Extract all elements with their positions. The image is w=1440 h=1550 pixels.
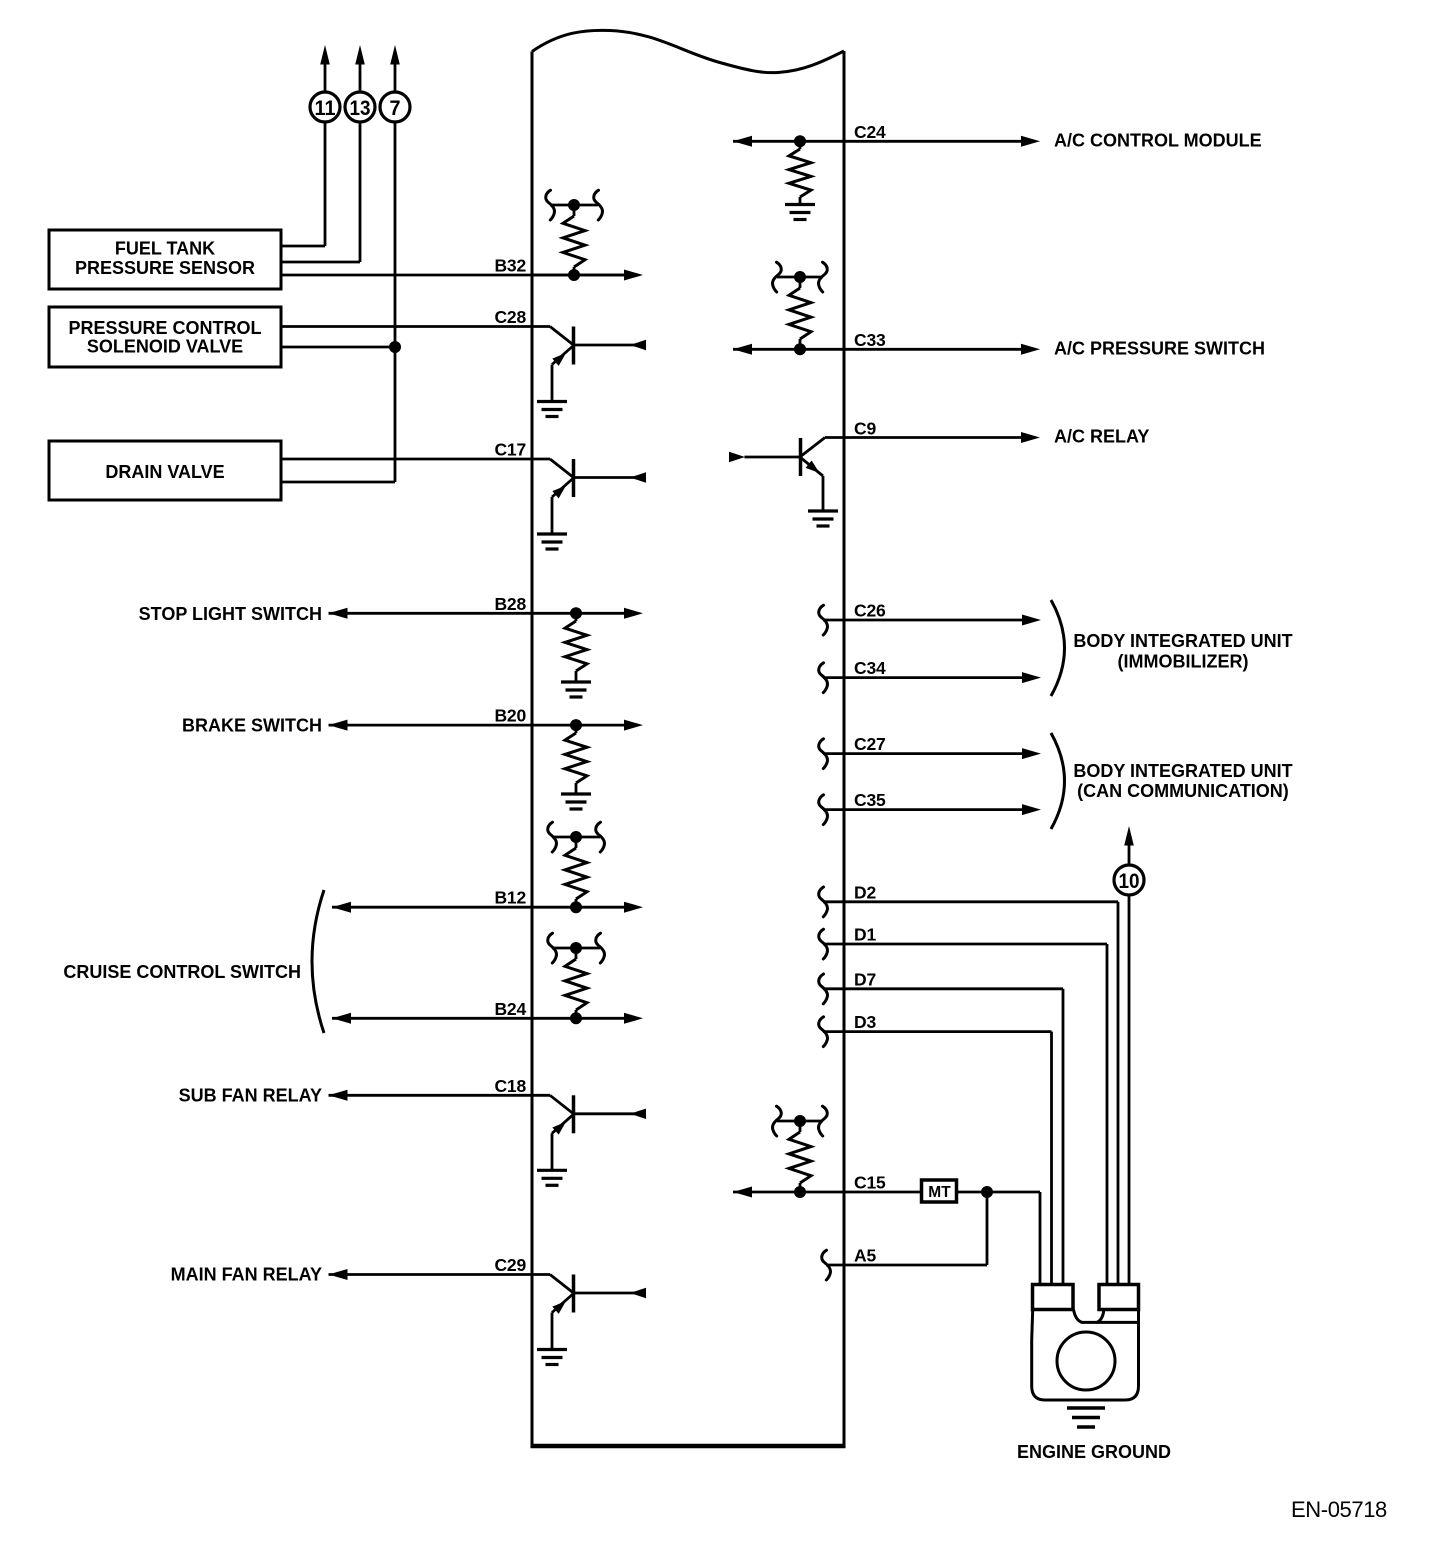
box DRAIN VALVE bbox=[49, 441, 281, 500]
wire D1 bbox=[819, 929, 828, 959]
ground of Q4 (main fan relay driver) bbox=[537, 1348, 567, 1351]
off-page arrow to circle 10 bbox=[1124, 826, 1134, 846]
svg-text:D1: D1 bbox=[854, 925, 876, 945]
wire C15 down to engine ground bbox=[1039, 1192, 1042, 1286]
node A junction bbox=[389, 341, 401, 353]
wire C34 bbox=[819, 663, 828, 693]
svg-text:ENGINE GROUND: ENGINE GROUND bbox=[1017, 1442, 1171, 1462]
ground of Q2 (drain valve driver) bbox=[537, 532, 567, 535]
transistor Q3 (sub fan relay driver) bbox=[572, 1095, 576, 1133]
wire from circle 7 down to drain valve branch bbox=[394, 122, 397, 483]
resistor B28 pull-down bbox=[575, 613, 578, 621]
wire fuel tank sensor pin2 to circle 13 bbox=[281, 261, 360, 264]
resistor B12 pull-up bbox=[575, 837, 578, 848]
svg-text:BRAKE SWITCH: BRAKE SWITCH bbox=[182, 716, 322, 736]
ECM box left border bbox=[531, 52, 534, 1447]
ground of Q5 bbox=[808, 509, 838, 512]
node C33 junction bbox=[794, 343, 806, 355]
ECM box wavy top (break) bbox=[532, 30, 844, 72]
svg-text:C15: C15 bbox=[854, 1173, 886, 1193]
brace body integrated unit CAN bbox=[1051, 733, 1065, 829]
svg-text:D3: D3 bbox=[854, 1012, 876, 1032]
svg-text:C24: C24 bbox=[854, 122, 886, 142]
transistor Q1 (pressure control solenoid driver) bbox=[572, 327, 576, 365]
svg-text:SUB FAN RELAY: SUB FAN RELAY bbox=[179, 1085, 322, 1105]
transistor Q4 (main fan relay driver) emitter wire bbox=[551, 1313, 554, 1349]
svg-text:C27: C27 bbox=[854, 734, 886, 754]
wire C33 to A/C pressure switch bbox=[733, 344, 752, 355]
power feed symbol above C33 resistor bbox=[777, 276, 823, 279]
engine ground terminal left bbox=[1033, 1285, 1074, 1310]
brace body integrated unit immobilizer bbox=[1051, 600, 1065, 696]
ECM box bottom border bbox=[531, 1444, 846, 1449]
svg-text:SOLENOID VALVE: SOLENOID VALVE bbox=[87, 337, 243, 357]
wire solenoid valve to node A bbox=[281, 346, 395, 349]
svg-text:BODY INTEGRATED UNIT: BODY INTEGRATED UNIT bbox=[1073, 631, 1292, 651]
wire B20 bbox=[329, 720, 348, 731]
connector circle 7 bbox=[380, 92, 410, 122]
transistor Q2 (drain valve driver) collector wire bbox=[532, 458, 550, 461]
ground below C24 resistor bbox=[785, 203, 815, 206]
svg-text:10: 10 bbox=[1119, 869, 1140, 893]
svg-text:C9: C9 bbox=[854, 419, 876, 439]
transistor Q4 (main fan relay driver) collector wire bbox=[532, 1273, 550, 1276]
wire C18 bbox=[329, 1090, 348, 1101]
resistor C15 pull-up bbox=[799, 1121, 802, 1132]
resistor B24 pull-up bbox=[575, 948, 578, 959]
box FUEL TANK PRESSURE SENSOR bbox=[49, 230, 281, 289]
wire B12 bbox=[332, 902, 351, 913]
box PRESSURE CONTROL SOLENOID VALVE bbox=[49, 307, 281, 367]
svg-text:(IMMOBILIZER): (IMMOBILIZER) bbox=[1118, 652, 1249, 672]
svg-text:C34: C34 bbox=[854, 658, 886, 678]
svg-text:PRESSURE CONTROL: PRESSURE CONTROL bbox=[68, 318, 261, 338]
svg-text:A/C RELAY: A/C RELAY bbox=[1054, 427, 1149, 447]
svg-text:11: 11 bbox=[315, 96, 336, 120]
node B12 junction bbox=[570, 901, 582, 913]
node B32 junction bbox=[568, 269, 580, 281]
svg-text:B32: B32 bbox=[494, 256, 526, 276]
svg-text:BODY INTEGRATED UNIT: BODY INTEGRATED UNIT bbox=[1073, 761, 1292, 781]
transistor Q3 (sub fan relay driver) collector wire bbox=[532, 1094, 550, 1097]
transistor Q2 (drain valve driver) emitter wire bbox=[551, 497, 554, 533]
svg-text:A5: A5 bbox=[854, 1246, 876, 1266]
power feed symbol above B12 resistor bbox=[552, 836, 600, 839]
node B20 junction bbox=[570, 719, 582, 731]
transistor Q5 (A/C relay driver) bbox=[801, 438, 826, 457]
wire drain valve to circle 7 branch bbox=[281, 481, 395, 484]
wire from circle 10 to engine ground bbox=[1128, 895, 1131, 1286]
transistor Q3 (sub fan relay driver) emitter wire bbox=[551, 1133, 554, 1169]
svg-text:A/C CONTROL MODULE: A/C CONTROL MODULE bbox=[1054, 131, 1262, 151]
wire from circle 13 down bbox=[359, 122, 362, 263]
wire C26 bbox=[819, 605, 828, 635]
svg-text:13: 13 bbox=[350, 96, 371, 120]
svg-text:MT: MT bbox=[928, 1184, 951, 1201]
svg-text:DRAIN VALVE: DRAIN VALVE bbox=[105, 462, 224, 482]
svg-text:EN-05718: EN-05718 bbox=[1291, 1497, 1387, 1522]
wire C15 bbox=[733, 1187, 752, 1198]
svg-text:B12: B12 bbox=[494, 888, 526, 908]
svg-text:C18: C18 bbox=[494, 1076, 526, 1096]
engine ground body top edge with notch bbox=[1074, 1310, 1139, 1323]
MT option box bbox=[922, 1180, 957, 1202]
ground of Q3 (sub fan relay driver) bbox=[537, 1169, 567, 1172]
wire B28 bbox=[329, 608, 348, 619]
wire D7 bbox=[819, 974, 828, 1004]
wire C9 to A/C relay bbox=[825, 436, 1021, 439]
node B24 junction bbox=[570, 1012, 582, 1024]
ECM box right border bbox=[843, 51, 846, 1446]
transistor Q4 (main fan relay driver) bbox=[572, 1275, 576, 1313]
resistor C24 pull-down bbox=[799, 141, 802, 149]
wire B32 inside ECM bbox=[532, 274, 625, 277]
engine ground bolt circle bbox=[1057, 1332, 1115, 1390]
connector circle 11 bbox=[310, 92, 340, 122]
svg-text:C33: C33 bbox=[854, 330, 886, 350]
connector circle 10 bbox=[1114, 865, 1144, 895]
off-page arrow to circle 11 bbox=[320, 45, 330, 65]
engine ground symbol bbox=[1067, 1406, 1105, 1410]
svg-text:PRESSURE SENSOR: PRESSURE SENSOR bbox=[75, 258, 255, 278]
wire D3 bbox=[819, 1017, 828, 1047]
svg-text:C26: C26 bbox=[854, 601, 886, 621]
transistor Q5 emitter wire bbox=[822, 476, 825, 510]
svg-text:C35: C35 bbox=[854, 790, 886, 810]
transistor Q1 (pressure control solenoid driver) collector wire bbox=[532, 325, 550, 328]
brace for cruise control switch bbox=[312, 890, 324, 1033]
wire C24 to A/C control module bbox=[733, 136, 752, 147]
resistor B20 pull-down bbox=[575, 725, 578, 733]
resistor B32 pull-up bbox=[573, 205, 576, 216]
ground below B28 resistor bbox=[561, 680, 591, 683]
svg-text:CRUISE CONTROL SWITCH: CRUISE CONTROL SWITCH bbox=[63, 962, 301, 982]
wire D2 bbox=[819, 887, 828, 917]
wire A5 bbox=[822, 1250, 831, 1280]
svg-text:C17: C17 bbox=[494, 440, 526, 460]
svg-text:STOP LIGHT SWITCH: STOP LIGHT SWITCH bbox=[139, 604, 322, 624]
node C24 junction bbox=[794, 135, 806, 147]
resistor C33 pull-up bbox=[799, 277, 802, 288]
wire C29 bbox=[329, 1269, 348, 1280]
off-page arrow to circle 13 bbox=[355, 45, 365, 65]
wire fuel tank sensor signal to B32 bbox=[281, 274, 626, 277]
svg-text:B28: B28 bbox=[494, 594, 526, 614]
svg-text:MAIN FAN RELAY: MAIN FAN RELAY bbox=[171, 1265, 322, 1285]
wire from circle 11 down bbox=[324, 122, 327, 247]
wire fuel tank sensor pin1 to circle 11 bbox=[281, 245, 325, 248]
svg-text:D7: D7 bbox=[854, 969, 876, 989]
svg-text:FUEL TANK: FUEL TANK bbox=[115, 239, 215, 259]
svg-text:C29: C29 bbox=[494, 1255, 526, 1275]
node MT junction bbox=[981, 1186, 993, 1198]
wire C27 bbox=[819, 739, 828, 769]
svg-text:A/C PRESSURE SWITCH: A/C PRESSURE SWITCH bbox=[1054, 339, 1265, 359]
transistor Q5 base wire bbox=[745, 456, 801, 459]
wire MT box to ground bus bbox=[956, 1191, 1041, 1194]
wire drain valve to C17 bbox=[281, 458, 532, 461]
node B28 junction bbox=[570, 607, 582, 619]
off-page arrow to circle 7 bbox=[390, 45, 400, 65]
engine ground body outline bbox=[1032, 1310, 1139, 1401]
power feed symbol above C15 resistor bbox=[777, 1120, 823, 1123]
svg-text:(CAN COMMUNICATION): (CAN COMMUNICATION) bbox=[1077, 781, 1289, 801]
svg-text:B20: B20 bbox=[494, 706, 526, 726]
wire B24 bbox=[332, 1013, 351, 1024]
wire C35 bbox=[819, 795, 828, 825]
svg-text:D2: D2 bbox=[854, 882, 876, 902]
engine ground terminal right bbox=[1099, 1285, 1139, 1310]
connector circle 13 bbox=[345, 92, 375, 122]
ground below B20 resistor bbox=[561, 792, 591, 795]
power feed symbol above B24 resistor bbox=[552, 947, 600, 950]
svg-text:7: 7 bbox=[390, 96, 401, 120]
svg-text:B24: B24 bbox=[494, 999, 526, 1019]
transistor Q1 (pressure control solenoid driver) emitter wire bbox=[551, 365, 554, 401]
svg-text:C28: C28 bbox=[494, 307, 526, 327]
wire solenoid valve to C28 bbox=[281, 325, 532, 328]
power feed symbol above B32 resistor bbox=[550, 204, 598, 207]
transistor Q2 (drain valve driver) bbox=[572, 459, 576, 497]
node C15 junction bbox=[794, 1186, 806, 1198]
ground of Q1 (pressure control solenoid driver) bbox=[537, 400, 567, 403]
